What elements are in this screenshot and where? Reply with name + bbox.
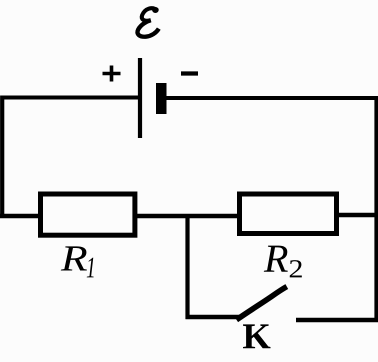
- wire R2 right lead: [337, 213, 376, 217]
- EMF script E label: [138, 7, 159, 37]
- wire switch bottom left: [186, 315, 241, 319]
- resistor R2: [240, 194, 337, 234]
- wire right vertical: [374, 96, 378, 322]
- switch K blade: [237, 287, 287, 320]
- wire top right (battery - to right corner): [166, 96, 378, 100]
- battery plus label: [103, 66, 121, 82]
- wire R1 to R2 (middle): [136, 214, 241, 218]
- label K (switch): [243, 324, 271, 348]
- battery minus label: [181, 71, 198, 75]
- battery long plate (+): [138, 58, 142, 138]
- wire junction vertical to switch: [185, 214, 189, 319]
- label R1: [61, 246, 87, 270]
- wire switch bottom right: [296, 318, 378, 322]
- wire R1 left lead: [0, 214, 42, 218]
- wire left vertical: [0, 96, 4, 219]
- resistor R1: [41, 194, 135, 235]
- wire top left (battery + to left corner): [1, 96, 142, 100]
- label R2: [264, 246, 288, 272]
- battery short thick plate (-): [156, 83, 167, 114]
